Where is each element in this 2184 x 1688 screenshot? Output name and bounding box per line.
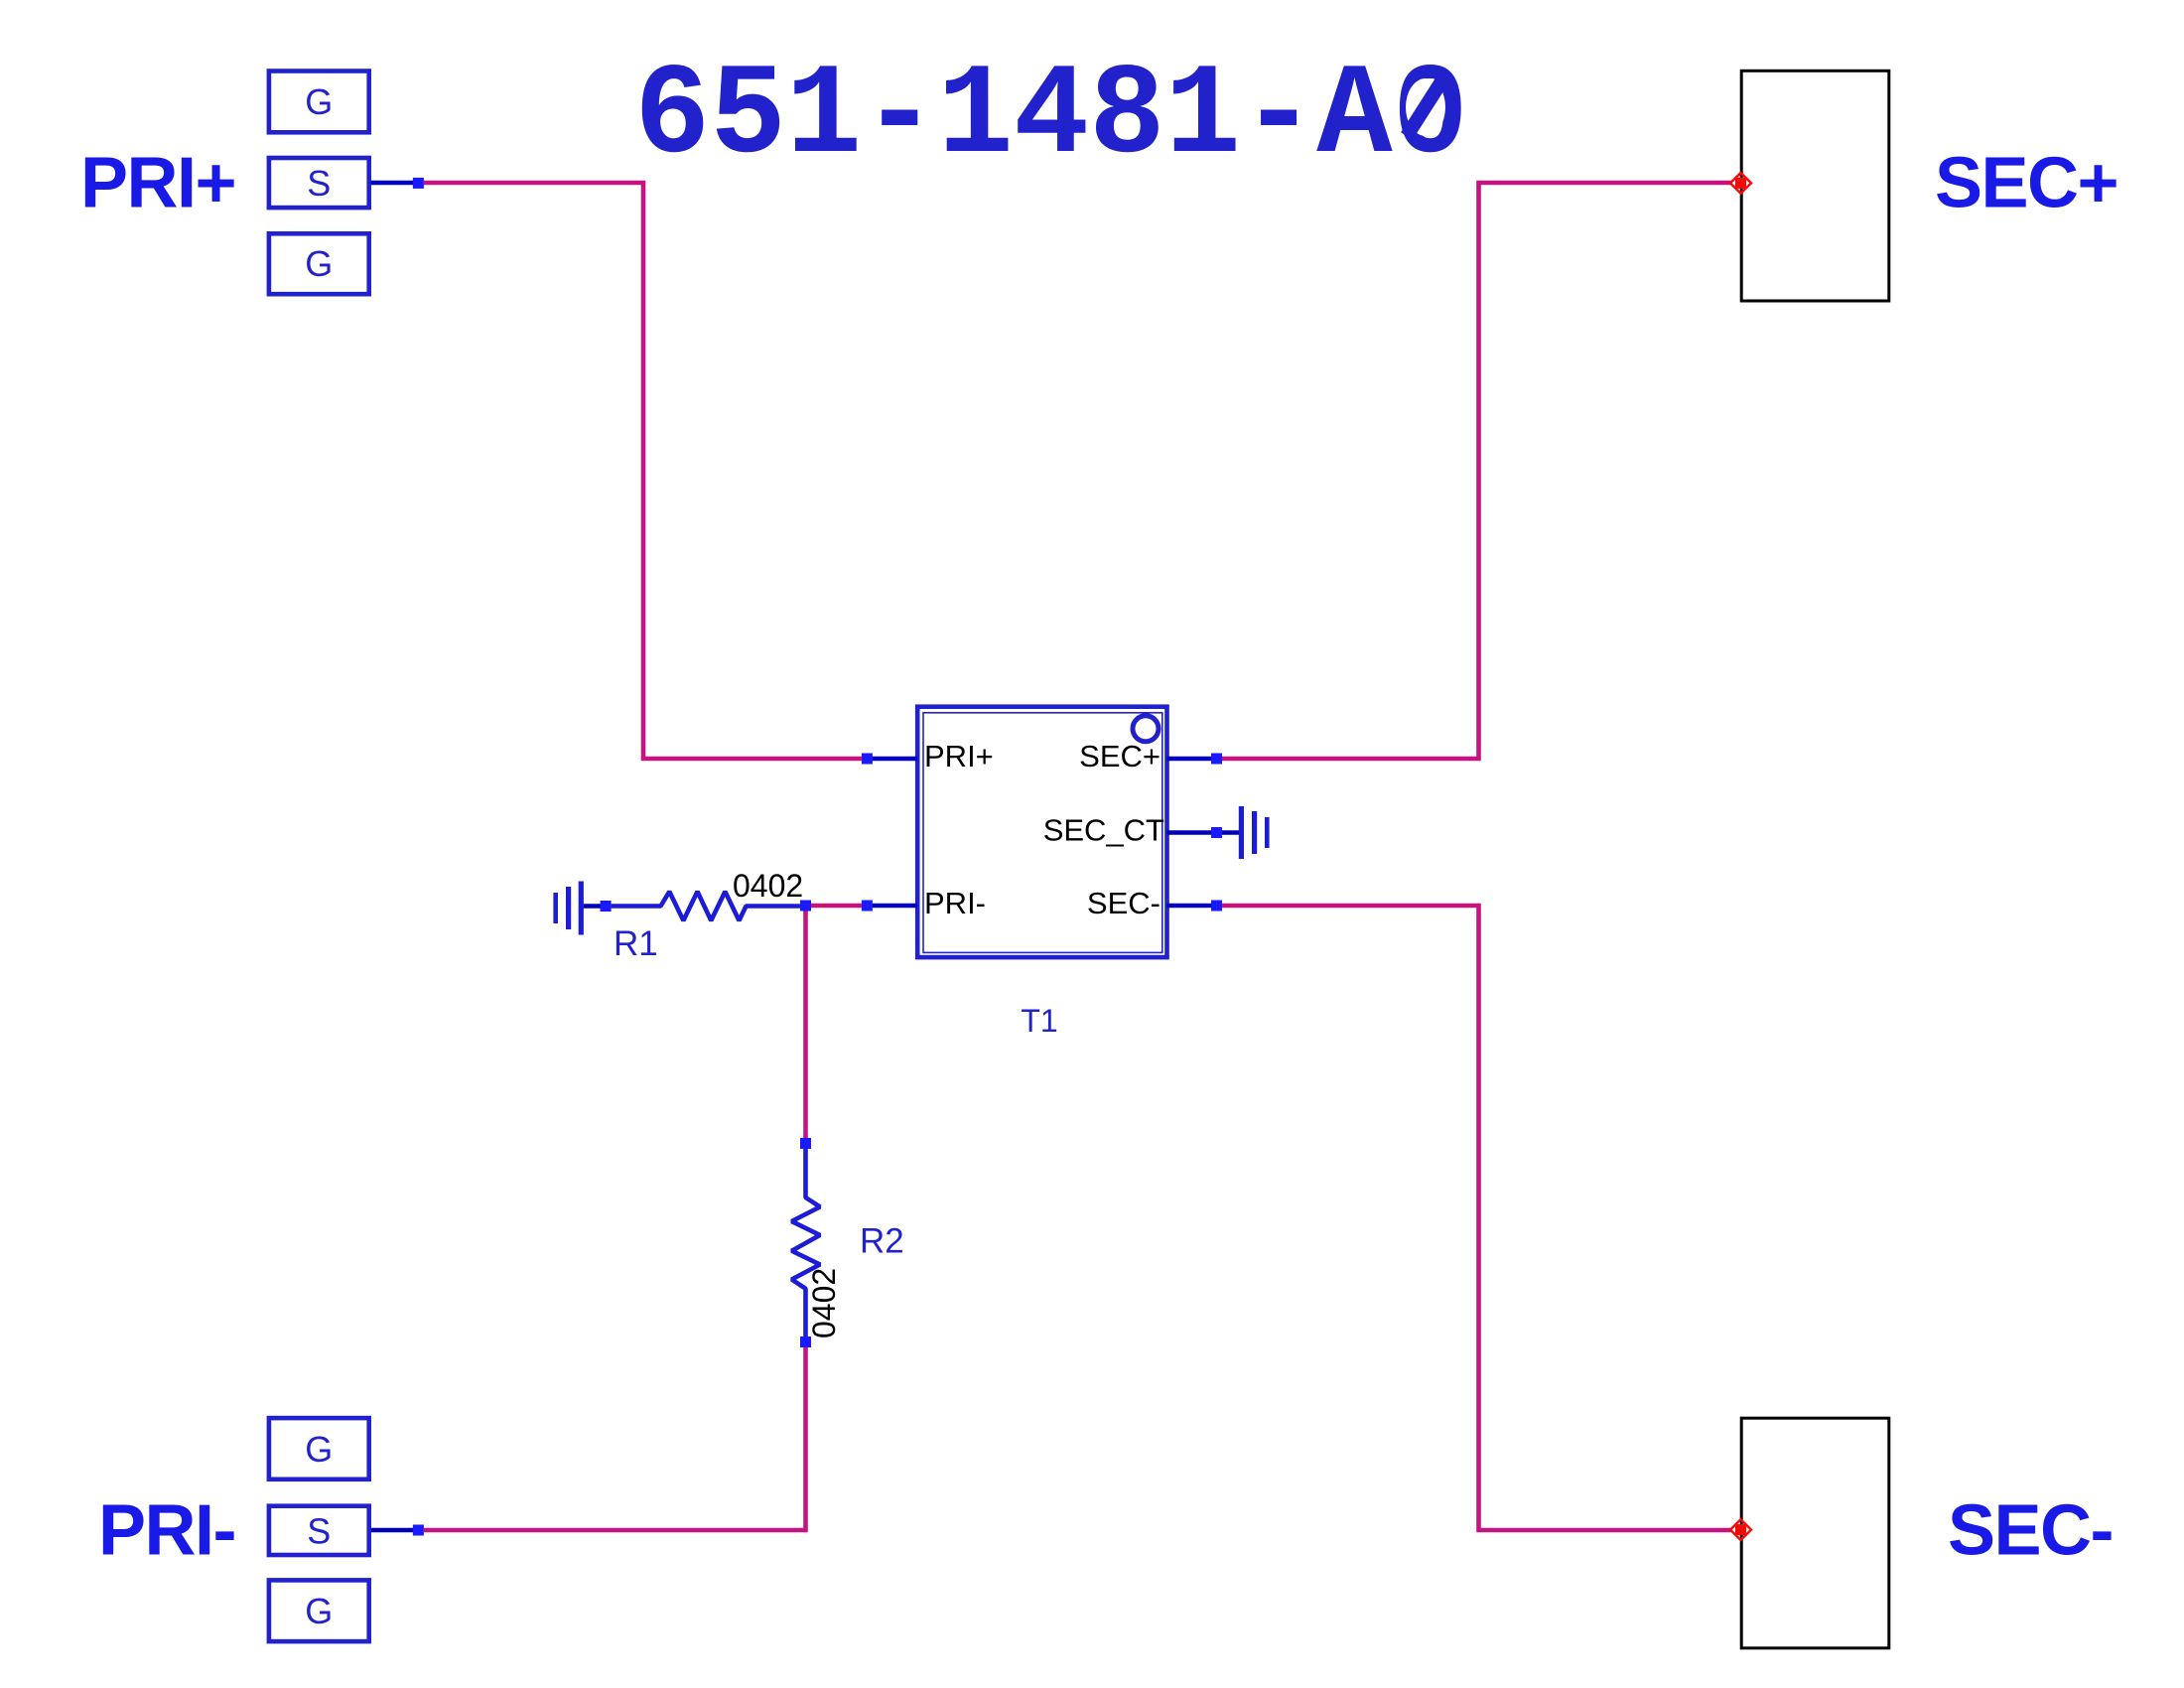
connector pad G (bottom of PRI+ group) bbox=[269, 233, 369, 294]
pin square T1 PRI- bbox=[862, 901, 873, 912]
pin square T1 SEC+ bbox=[1211, 754, 1222, 765]
pin stub T1 SEC_CT bbox=[1167, 830, 1217, 835]
wire ground to R1 bbox=[584, 904, 601, 909]
svg-text:S: S bbox=[307, 1510, 331, 1551]
svg-text:G: G bbox=[305, 243, 333, 284]
off-page port box SEC- bbox=[1741, 1418, 1889, 1648]
off-page port box SEC+ bbox=[1741, 70, 1889, 301]
svg-text:SEC-: SEC- bbox=[1948, 1491, 2113, 1571]
connector pad G (bottom, PRI- group) bbox=[269, 1580, 369, 1641]
svg-text:T1: T1 bbox=[1021, 1003, 1057, 1039]
junction square R1/R2/PRI- node bbox=[800, 901, 811, 912]
title 651-1481-A0 bbox=[634, 45, 1468, 191]
wire net PRI+ (S box to T1 PRI+ pin) bbox=[424, 183, 862, 759]
pin stub T1 PRI- bbox=[867, 904, 917, 909]
connector pad S (PRI- signal) bbox=[269, 1506, 369, 1555]
pin stub PRI+ S box bbox=[371, 181, 413, 186]
pin square T1 SEC_CT bbox=[1211, 827, 1222, 838]
ground symbol (R1 left) bbox=[553, 882, 584, 935]
svg-text:G: G bbox=[305, 1429, 333, 1470]
junction square PRI- S box bbox=[413, 1525, 424, 1536]
svg-text:PRI+: PRI+ bbox=[80, 144, 235, 223]
svg-text:SEC_CT: SEC_CT bbox=[1043, 813, 1164, 848]
svg-text:S: S bbox=[307, 163, 331, 204]
resistor R1 bbox=[612, 892, 800, 920]
port marker diamond SEC+ bbox=[1730, 173, 1751, 194]
wire net PRI-B (PRI- S box to R2 bottom) bbox=[424, 1347, 806, 1530]
svg-text:R2: R2 bbox=[860, 1222, 904, 1261]
svg-text:G: G bbox=[305, 81, 333, 122]
pin stub T1 SEC+ bbox=[1167, 757, 1217, 762]
svg-text:PRI-: PRI- bbox=[924, 886, 986, 920]
pin stub PRI- S box bbox=[371, 1528, 413, 1533]
svg-text:SEC-: SEC- bbox=[1087, 886, 1160, 920]
junction square R2 top bbox=[800, 1138, 811, 1149]
svg-text:G: G bbox=[305, 1591, 333, 1631]
wire net SEC- (T1 SEC- pin to SEC- port) bbox=[1222, 906, 1730, 1530]
connector pad G (top, PRI+ group) bbox=[269, 71, 369, 133]
connector pad G (top, PRI- group) bbox=[269, 1418, 369, 1479]
svg-text:0402: 0402 bbox=[806, 1268, 842, 1338]
connector pad S (PRI+ signal) bbox=[269, 158, 369, 208]
wire net PRI- (R1/R2 junction to T1 PRI- pin) bbox=[811, 904, 862, 909]
pin stub T1 PRI+ bbox=[867, 757, 917, 762]
transformer T1 bbox=[917, 707, 1166, 957]
junction square R2 bottom bbox=[800, 1336, 811, 1347]
wire net SEC+ (T1 SEC+ pin to SEC+ port) bbox=[1222, 183, 1730, 759]
pin square T1 PRI+ bbox=[862, 754, 873, 765]
svg-text:PRI+: PRI+ bbox=[924, 739, 994, 774]
ground symbol (SEC_CT) bbox=[1239, 806, 1270, 859]
junction square R1 left bbox=[601, 901, 612, 912]
resistor R2 bbox=[792, 1149, 821, 1336]
wire SEC_CT to ground bbox=[1222, 830, 1240, 835]
svg-text:SEC+: SEC+ bbox=[1935, 144, 2117, 223]
svg-text:0402: 0402 bbox=[733, 868, 803, 904]
pin square T1 SEC- bbox=[1211, 901, 1222, 912]
pin stub T1 SEC- bbox=[1167, 904, 1217, 909]
svg-text:651-1481-A0: 651-1481-A0 bbox=[634, 45, 1468, 191]
svg-text:PRI-: PRI- bbox=[98, 1491, 235, 1571]
svg-text:R1: R1 bbox=[614, 924, 658, 963]
junction square PRI+ S box bbox=[413, 178, 424, 189]
wire net PRI- (junction down to R2 top) bbox=[803, 911, 808, 1138]
svg-text:SEC+: SEC+ bbox=[1079, 739, 1160, 774]
port marker diamond SEC- bbox=[1730, 1519, 1751, 1540]
